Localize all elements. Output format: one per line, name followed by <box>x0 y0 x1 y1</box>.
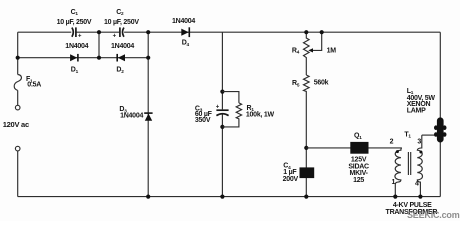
junction C4 rail <box>304 195 308 199</box>
wire bottom rail <box>18 196 441 198</box>
junction node B mid <box>146 56 150 60</box>
wire top rail <box>18 31 441 33</box>
capacitor C2 <box>119 27 121 37</box>
capacitor C3 <box>216 109 228 111</box>
svg-text:560k: 560k <box>314 80 329 87</box>
wire doubler mid rail <box>18 57 149 59</box>
diode D3 <box>145 114 152 121</box>
svg-text:1N4004: 1N4004 <box>172 18 195 25</box>
capacitor C4 <box>300 167 315 178</box>
transformer T1 secondary winding <box>417 135 422 197</box>
svg-text:3: 3 <box>417 138 421 145</box>
svg-text:+: + <box>78 34 82 40</box>
phasing dot primary <box>396 150 399 153</box>
fuse F1 <box>14 75 21 106</box>
svg-text:1N4004: 1N4004 <box>120 112 143 119</box>
transformer T1 primary winding <box>395 148 402 197</box>
svg-text:1N4004: 1N4004 <box>65 43 88 50</box>
svg-text:D1: D1 <box>71 67 79 74</box>
diode D2 <box>118 54 125 61</box>
phasing dot secondary <box>419 151 422 154</box>
resistor R1 <box>222 92 241 127</box>
wire node B vertical <box>147 32 149 196</box>
svg-text:SEEKIC.com: SEEKIC.com <box>407 210 460 220</box>
svg-text:10 µF, 250V: 10 µF, 250V <box>57 19 92 26</box>
svg-text:LAMP: LAMP <box>407 108 426 115</box>
junction node B top <box>146 30 150 34</box>
svg-text:C2: C2 <box>116 9 124 16</box>
svg-text:R4: R4 <box>292 47 300 54</box>
junction node A bottom <box>97 56 101 60</box>
svg-text:D2: D2 <box>116 67 124 74</box>
wire left rail lower <box>17 151 19 197</box>
wire node A vertical <box>98 32 100 58</box>
svg-text:2: 2 <box>390 138 394 145</box>
diode D1 <box>70 54 77 61</box>
svg-text:4: 4 <box>415 181 419 188</box>
terminal lower 120V <box>15 146 20 151</box>
svg-text:Q1: Q1 <box>354 132 362 139</box>
svg-text:C1: C1 <box>71 9 79 16</box>
svg-text:1N4004: 1N4004 <box>111 43 134 50</box>
junction left mid <box>16 56 20 60</box>
svg-text:350V: 350V <box>195 117 211 124</box>
svg-text:10 µF, 250V: 10 µF, 250V <box>104 19 139 26</box>
junction C3 top <box>220 90 224 94</box>
svg-text:200V: 200V <box>283 176 299 183</box>
wiper arm R4 <box>312 32 322 50</box>
svg-text:D4: D4 <box>182 39 190 46</box>
junction C3 bottom <box>220 125 224 129</box>
wiper arrowhead <box>308 48 313 52</box>
svg-text:1M: 1M <box>327 48 337 55</box>
wire left rail upper <box>17 32 19 74</box>
svg-text:100k, 1W: 100k, 1W <box>246 112 275 119</box>
diode D4 <box>181 29 188 36</box>
svg-text:125: 125 <box>353 177 364 184</box>
junction node A top <box>97 30 101 34</box>
junction C3 rail <box>220 195 224 199</box>
wire C3 branch vertical <box>221 32 223 196</box>
terminal upper 120V <box>15 105 20 110</box>
svg-text:R5: R5 <box>292 80 300 87</box>
xenon lamp L1 <box>437 117 444 142</box>
transformer core <box>408 152 410 175</box>
wire lamp trigger <box>422 134 437 136</box>
junction wiper top <box>320 30 324 34</box>
junction node B bottom <box>146 195 150 199</box>
resistor R4 potentiometer <box>304 32 310 75</box>
svg-text:120V ac: 120V ac <box>3 120 29 129</box>
capacitor C1 <box>72 28 73 37</box>
resistor R5 <box>304 75 310 197</box>
junction R4 top <box>304 30 308 34</box>
junction trigger node <box>304 146 308 150</box>
svg-text:+: + <box>113 34 117 40</box>
junction pin1 rail <box>393 195 397 199</box>
svg-text:1: 1 <box>392 179 396 186</box>
wire trigger row <box>306 147 402 149</box>
SIDAC Q1 <box>350 142 368 154</box>
wire right rail <box>439 32 441 196</box>
svg-text:T1: T1 <box>404 131 411 138</box>
svg-text:0.5A: 0.5A <box>27 82 41 89</box>
junction pin4 rail <box>418 195 422 199</box>
